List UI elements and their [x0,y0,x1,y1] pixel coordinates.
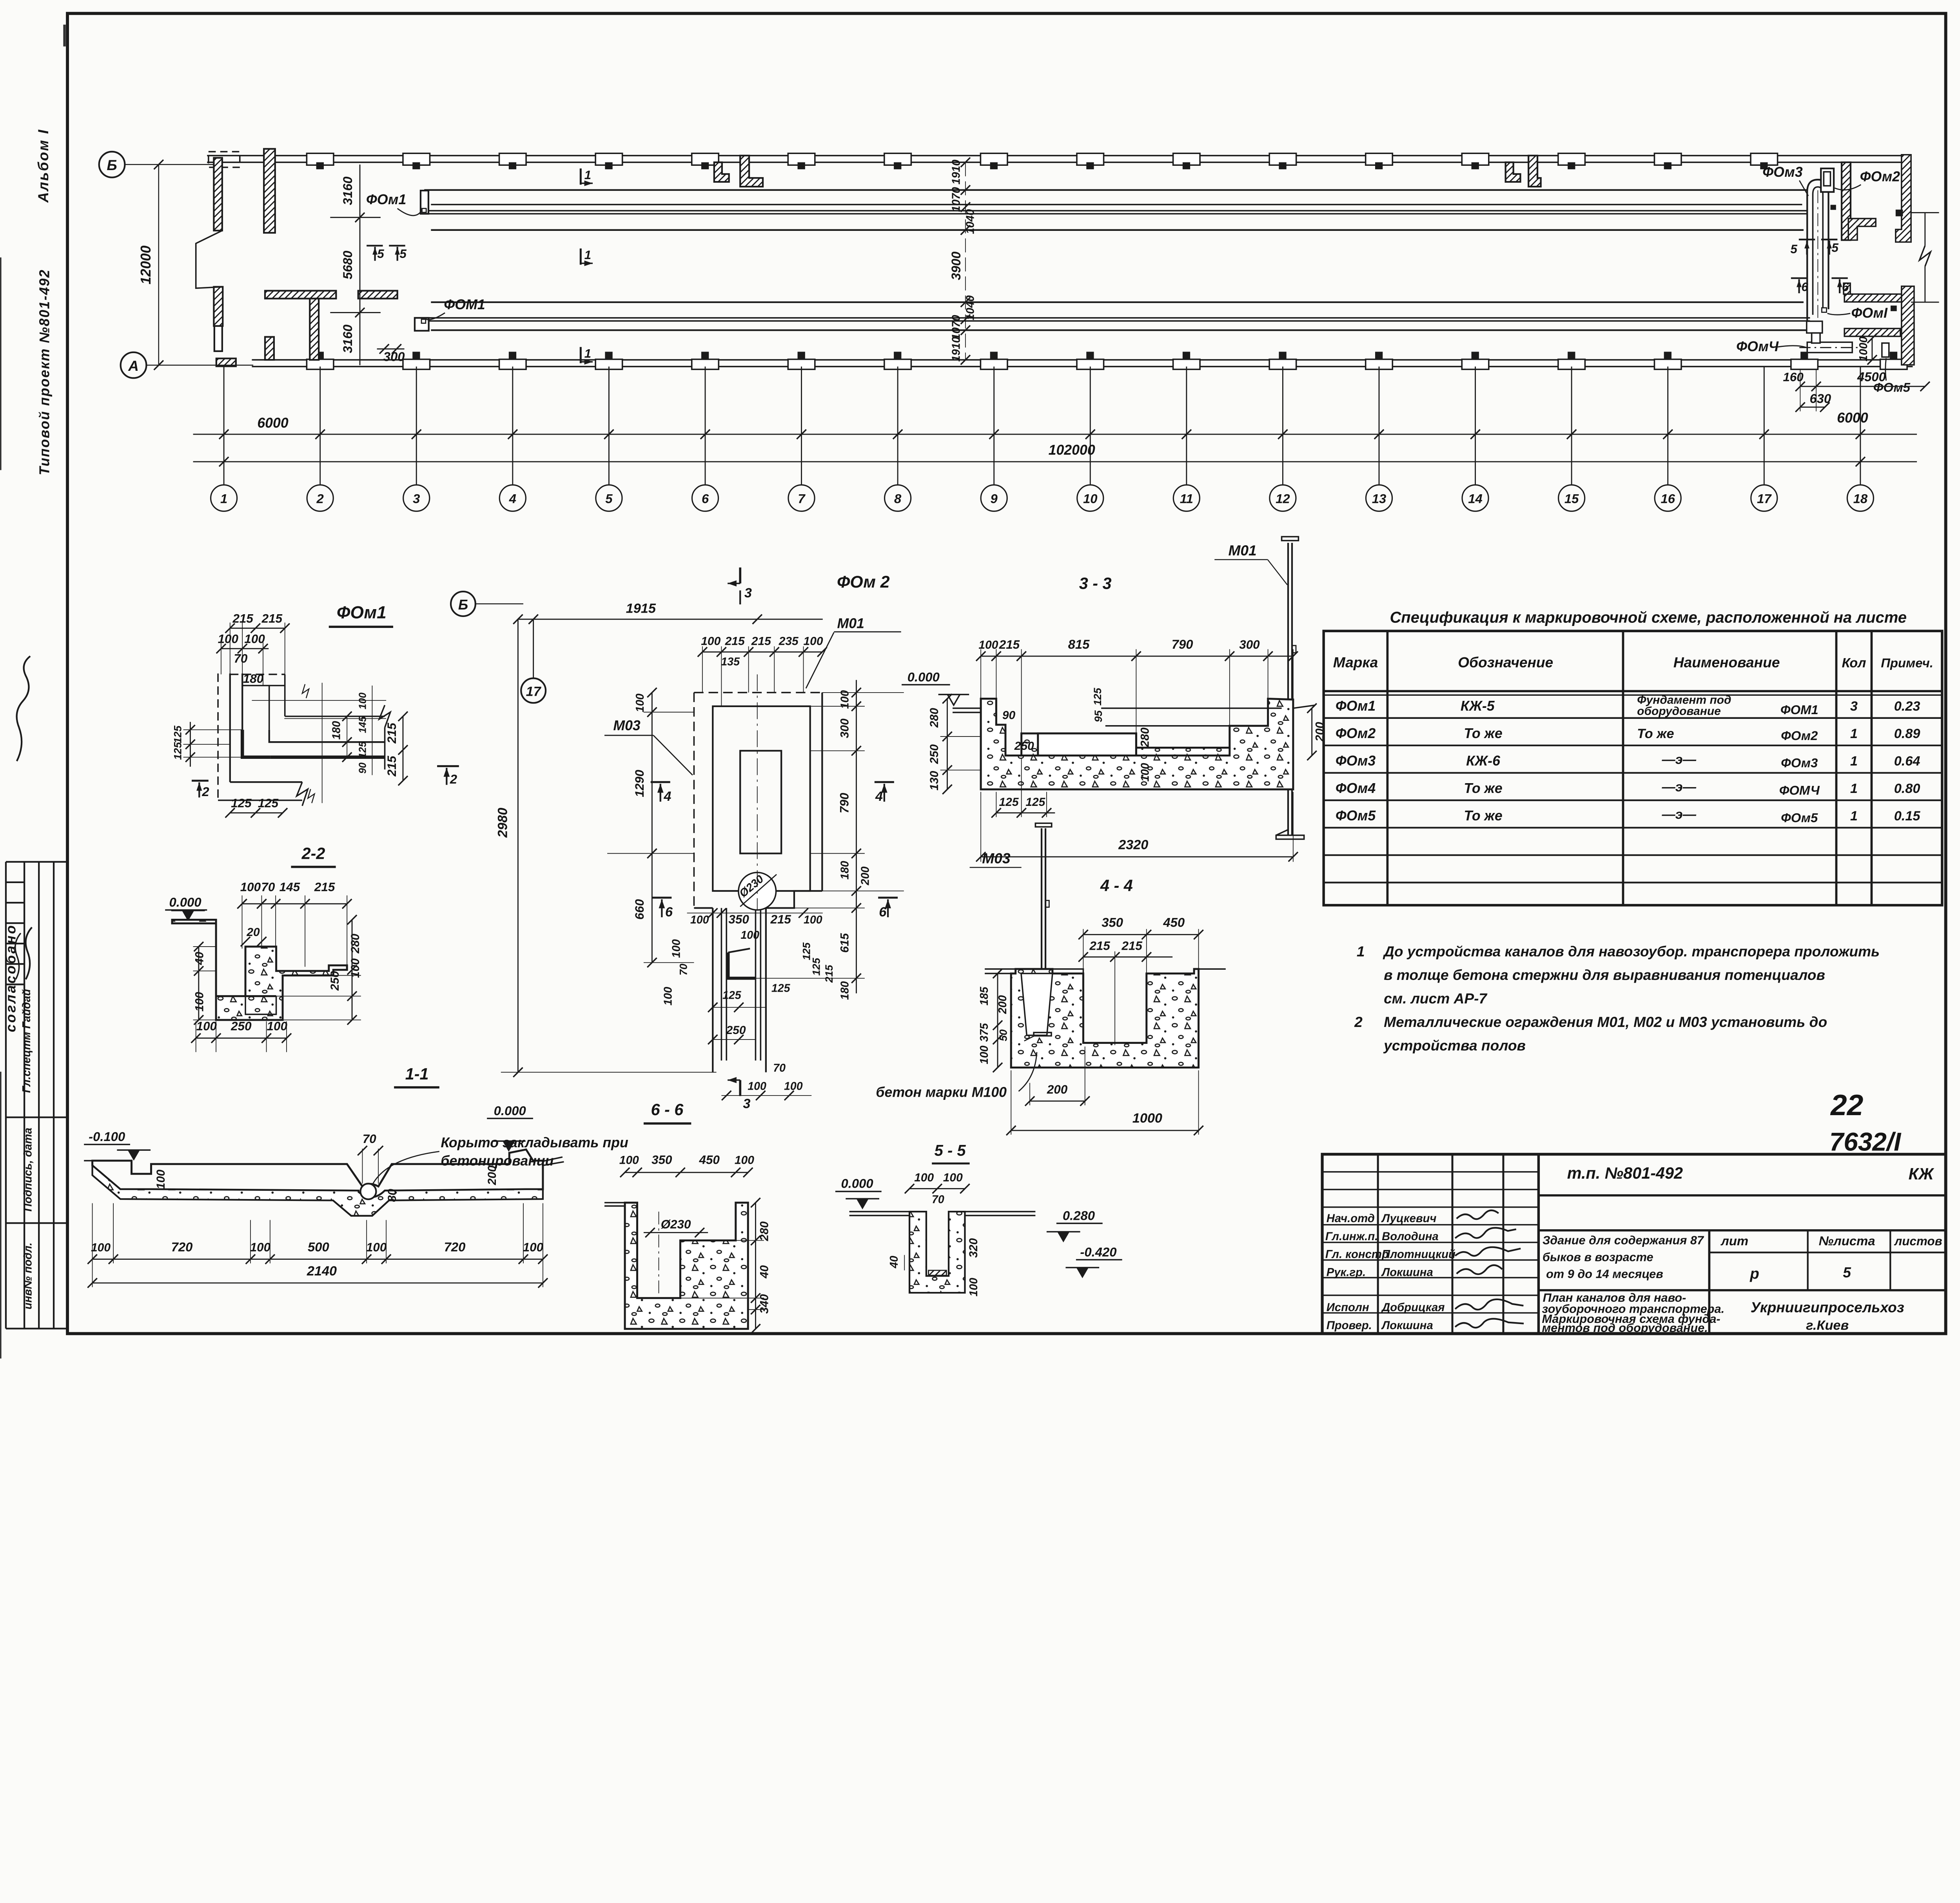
svg-text:1915: 1915 [626,601,656,616]
svg-text:70: 70 [234,651,247,665]
svg-text:3160: 3160 [340,176,355,205]
svg-text:1: 1 [220,492,227,506]
svg-text:215: 215 [1121,939,1142,953]
svg-text:6: 6 [702,492,709,506]
FOm2 mid dims [687,912,823,914]
dim 300 [377,348,405,350]
3-3 top dims [981,655,1293,657]
svg-text:То же: То же [1637,726,1674,741]
svg-text:6 - 6: 6 - 6 [651,1101,684,1119]
mid expansion joint details on top wall [714,162,729,182]
svg-text:12000: 12000 [138,245,154,284]
svg-text:280: 280 [758,1221,771,1241]
trough slab hatch lines [84,1160,92,1162]
svg-text:Марка: Марка [1333,654,1378,671]
svg-text:1: 1 [584,346,591,360]
svg-text:70: 70 [773,1062,786,1074]
svg-text:0.23: 0.23 [1894,699,1920,714]
svg-text:0.000: 0.000 [169,895,201,909]
svg-text:Гл. констр: Гл. констр [1325,1248,1389,1261]
svg-text:А: А [128,357,139,374]
svg-text:5: 5 [1843,1264,1851,1281]
svg-text:100: 100 [943,1171,963,1184]
svg-text:660: 660 [633,899,646,920]
svg-text:Гл.спецтм Гайдай: Гл.спецтм Гайдай [20,989,33,1093]
svg-text:11: 11 [1180,492,1193,506]
FOm2 left dim chain [651,693,653,963]
svg-text:6: 6 [1842,280,1849,294]
svg-text:125: 125 [172,742,184,760]
svg-text:40: 40 [888,1256,900,1269]
top wall [207,156,1908,162]
svg-text:Здание для содержания 87: Здание для содержания 87 [1543,1234,1704,1247]
svg-text:Плотницкий: Плотницкий [1382,1248,1455,1261]
svg-text:500: 500 [308,1239,329,1254]
2-2 dims top [242,903,347,905]
svg-text:1070: 1070 [950,315,963,340]
svg-text:180: 180 [838,981,851,1000]
svg-text:4: 4 [509,492,516,506]
svg-text:Исполн: Исполн [1327,1301,1369,1314]
svg-text:3 - 3: 3 - 3 [1079,575,1112,593]
svg-text:ФОм1: ФОм1 [366,192,406,207]
svg-text:Нач.отд: Нач.отд [1327,1212,1375,1225]
FOm1 dims top [230,628,285,629]
svg-text:4: 4 [875,789,883,804]
svg-text:ФОм2: ФОм2 [1781,728,1818,743]
svg-text:КЖ-6: КЖ-6 [1466,753,1501,769]
6-6 right dims [755,1203,756,1329]
svg-text:г.Киев: г.Киев [1806,1318,1849,1333]
svg-text:ФОм 2: ФОм 2 [837,573,890,591]
svg-text:100: 100 [748,1080,766,1093]
3-3 right dim 200 [1311,708,1313,756]
svg-text:215: 215 [314,880,335,894]
M01 post [1287,543,1289,835]
dim 1000 rotated right [1871,338,1873,360]
svg-text:9: 9 [991,492,998,506]
svg-text:2: 2 [316,492,324,506]
svg-text:50: 50 [997,1029,1009,1041]
svg-text:3: 3 [744,586,752,600]
svg-text:450: 450 [1163,915,1185,929]
svg-text:5: 5 [1790,242,1797,256]
svg-text:100: 100 [978,639,998,651]
svg-text:Луцкевич: Луцкевич [1381,1212,1436,1225]
svg-text:2140: 2140 [307,1264,337,1279]
svg-text:100: 100 [619,1154,639,1167]
svg-text:То же: То же [1464,808,1502,824]
svg-text:Локшина: Локшина [1381,1266,1433,1279]
svg-text:Укрниигипросельхоз: Укрниигипросельхоз [1751,1299,1904,1315]
svg-text:200: 200 [996,995,1009,1014]
svg-text:ментов под оборудование.: ментов под оборудование. [1542,1321,1708,1335]
svg-text:КЖ: КЖ [1909,1165,1935,1183]
svg-text:100: 100 [967,1278,980,1297]
3-3 left dims [946,699,948,789]
left gable wall fragments [209,152,240,167]
svg-text:Спецификация к маркировочной с: Спецификация к маркировочной схеме, расп… [1390,609,1907,626]
svg-text:720: 720 [171,1239,193,1254]
svg-text:Б: Б [107,157,117,173]
section 2 marks [192,779,209,782]
svg-text:от 9 до 14 месяцев: от 9 до 14 месяцев [1546,1267,1663,1281]
svg-text:1000: 1000 [1857,336,1870,361]
svg-text:КЖ-5: КЖ-5 [1461,698,1495,714]
5-5 top dims [909,1188,965,1190]
svg-text:ФОМ1: ФОМ1 [1780,702,1818,717]
svg-text:215: 215 [751,635,771,648]
svg-text:7: 7 [798,492,806,506]
interior wall T pieces left [265,291,336,299]
margin stamp table [6,862,67,1329]
svg-text:215: 215 [232,611,253,625]
svg-text:5 - 5: 5 - 5 [935,1142,966,1159]
svg-text:125: 125 [172,725,184,743]
FOm2 right dim chain [855,680,857,994]
svg-text:215: 215 [261,611,283,625]
svg-text:6000: 6000 [1837,410,1868,426]
svg-text:15: 15 [1564,492,1579,506]
svg-text:300: 300 [1239,638,1260,651]
svg-text:100: 100 [740,929,759,942]
axis A circle [121,352,147,378]
section 3 mark top [739,568,742,584]
svg-text:80: 80 [386,1189,399,1202]
svg-text:2-2: 2-2 [301,845,325,863]
svg-text:1910: 1910 [950,160,963,185]
svg-text:лит: лит [1720,1234,1748,1248]
svg-text:До устройства каналов для наво: До устройства каналов для навозоубор. тр… [1383,943,1880,960]
svg-text:М01: М01 [837,616,864,631]
svg-text:см. лист АР-7: см. лист АР-7 [1384,990,1488,1007]
svg-text:7632/I: 7632/I [1829,1127,1902,1156]
svg-text:Кол: Кол [1842,656,1866,671]
svg-text:160: 160 [1783,370,1804,384]
svg-text:40: 40 [193,952,206,965]
svg-text:70: 70 [261,880,275,894]
svg-text:1: 1 [1850,809,1858,824]
axis B circle [99,152,125,178]
svg-text:215: 215 [823,965,835,983]
svg-text:375: 375 [978,1023,991,1042]
grid circles [211,485,1874,511]
svg-text:1: 1 [1357,943,1365,960]
svg-text:100: 100 [154,1170,167,1189]
svg-text:125: 125 [771,982,791,995]
svg-text:5: 5 [399,247,407,261]
svg-text:Гл.инж.п.: Гл.инж.п. [1325,1230,1378,1243]
dim line 6000 row [193,434,1917,435]
svg-text:6: 6 [665,905,673,920]
svg-text:оборудование: оборудование [1637,705,1721,718]
svg-text:250: 250 [1014,740,1034,753]
svg-text:100: 100 [267,1019,288,1033]
svg-text:125: 125 [258,796,279,810]
svg-text:1070: 1070 [950,187,963,212]
svg-text:100: 100 [978,1045,991,1064]
svg-text:4500: 4500 [1857,369,1886,384]
FOm2 center dashdot [757,674,758,909]
svg-text:5: 5 [377,247,384,261]
svg-text:22: 22 [1830,1088,1863,1121]
svg-text:125: 125 [1091,688,1103,706]
4-4 top dims [1083,934,1198,935]
svg-text:280: 280 [349,934,362,954]
svg-text:100: 100 [358,692,368,709]
svg-text:250: 250 [328,971,341,991]
svg-text:устройства полов: устройства полов [1383,1037,1526,1054]
svg-text:—э—: —э— [1662,752,1697,767]
dim chain 3160/5680/3160 [359,165,361,365]
svg-text:185: 185 [978,986,991,1005]
svg-text:20: 20 [246,926,260,939]
svg-text:1: 1 [584,248,591,262]
FOm2 block top right [1821,169,1834,192]
section 3 mark bottom [739,1080,742,1096]
svg-text:Володина: Володина [1382,1230,1439,1243]
svg-text:90: 90 [358,762,368,774]
channel left end cap FOm1 [421,190,428,214]
svg-text:16: 16 [1661,492,1675,506]
svg-text:615: 615 [838,932,851,952]
5-5 body [909,1212,965,1293]
dim 12000 vertical [158,165,160,365]
svg-text:6000: 6000 [257,415,289,431]
svg-text:790: 790 [837,793,851,813]
FOm1 dims right [347,717,348,757]
svg-text:—э—: —э— [1662,780,1697,795]
lower right room walls [1844,294,1902,302]
svg-text:1: 1 [1850,726,1858,741]
svg-text:95: 95 [1092,710,1104,722]
svg-text:0.64: 0.64 [1894,754,1920,769]
svg-text:1040: 1040 [964,209,976,234]
svg-text:135: 135 [721,656,740,668]
svg-text:бетон марки М100: бетон марки М100 [876,1084,1007,1100]
right end walls [1842,162,1851,240]
svg-text:100: 100 [662,987,674,1005]
svg-text:100: 100 [914,1171,934,1184]
svg-text:ФОмI: ФОмI [1851,305,1888,321]
svg-text:0.000: 0.000 [841,1176,873,1190]
top wall pilasters [307,153,334,169]
second expansion joint details on top wall [1506,162,1521,182]
svg-text:100: 100 [244,632,265,646]
svg-text:17: 17 [526,684,542,699]
dim 2140 [93,1282,543,1284]
svg-text:215: 215 [999,638,1020,651]
channel long lines bottom band [420,302,1810,330]
svg-text:1040: 1040 [964,295,976,320]
svg-text:3: 3 [743,1096,750,1111]
svg-text:0.000: 0.000 [907,669,940,684]
svg-text:125: 125 [231,796,252,810]
3-3 right floor lines [1101,707,1281,709]
scan edge artifacts [0,258,2,470]
svg-text:450: 450 [699,1153,720,1167]
svg-text:250: 250 [230,1019,252,1033]
svg-text:145: 145 [279,880,300,894]
dims 160 4500 630 [1800,386,1925,387]
svg-text:100: 100 [523,1240,544,1254]
channel long lines top band [424,190,1807,230]
svg-text:215: 215 [770,912,791,926]
svg-text:100: 100 [196,1019,217,1033]
section marks 5 left [367,246,405,261]
margin signature squiggle mid [26,927,32,980]
svg-text:р: р [1749,1265,1759,1282]
svg-text:70: 70 [363,1132,376,1146]
svg-text:5: 5 [605,492,613,506]
svg-text:13: 13 [1372,492,1387,506]
svg-text:180: 180 [330,721,343,740]
svg-text:4 - 4: 4 - 4 [1100,877,1133,895]
svg-text:быков в возрасте: быков в возрасте [1543,1250,1653,1264]
3-3 body [981,699,1293,789]
svg-text:100: 100 [240,880,261,894]
svg-text:300: 300 [383,349,405,364]
svg-text:100: 100 [634,693,646,712]
svg-text:0.89: 0.89 [1894,726,1920,741]
svg-text:70: 70 [932,1194,944,1206]
svg-text:10: 10 [1083,492,1098,506]
svg-text:215: 215 [385,723,399,744]
FOm5 block [1882,343,1889,357]
svg-text:300: 300 [838,718,851,738]
margin signature squiggle upper [17,656,31,761]
svg-text:250: 250 [928,744,941,764]
svg-text:Примеч.: Примеч. [1881,656,1933,670]
svg-text:215: 215 [385,756,399,777]
spec table grid [1324,631,1942,905]
6-6 top dims [625,1172,748,1173]
M03 post above 4-4 [1040,828,1043,996]
FOm4 strip [1807,342,1852,352]
svg-text:720: 720 [444,1239,466,1254]
svg-text:100: 100 [366,1240,387,1254]
section marks 1 (three flags) [581,169,593,363]
svg-text:3160: 3160 [340,325,355,353]
svg-text:100: 100 [735,1154,754,1167]
channel left end cap lower FOm1 [415,318,429,331]
vertical dim chain mid-plan [965,162,966,360]
svg-text:Подпись, дата: Подпись, дата [22,1128,34,1212]
axis circle 17 [521,678,546,703]
section 2-2 body [172,920,347,1020]
svg-text:1000: 1000 [1132,1111,1162,1126]
svg-text:ФОмЧ: ФОмЧ [1736,339,1779,354]
svg-text:инв№ подл.: инв№ подл. [22,1243,34,1310]
svg-text:280: 280 [1138,727,1151,747]
svg-text:2: 2 [201,784,209,799]
signatures squiggles [1455,1210,1524,1328]
4-4 left dims [1007,974,1008,1068]
FOm1 channel corner walls [218,673,390,806]
bottom wall [252,360,1913,366]
svg-text:-0.100: -0.100 [89,1129,125,1144]
svg-text:ФОм5: ФОм5 [1336,808,1376,824]
svg-text:100: 100 [1139,763,1151,782]
svg-text:М03: М03 [613,718,641,733]
svg-text:125: 125 [800,942,813,960]
svg-text:1: 1 [1850,754,1858,769]
post pocket trapezoid [1021,974,1053,1036]
svg-text:2980: 2980 [495,808,510,838]
svg-text:100: 100 [193,992,206,1011]
svg-text:6: 6 [879,905,887,920]
svg-text:т.п. №801-492: т.п. №801-492 [1567,1164,1683,1182]
section 6 arrows [652,896,671,899]
svg-text:6: 6 [1801,280,1808,294]
FOm3 loop channel right [1807,180,1828,321]
svg-text:125: 125 [358,741,368,758]
4-4 left floor line [985,972,1011,974]
svg-text:3900: 3900 [949,252,963,280]
svg-text:130: 130 [928,771,941,790]
2-2 dims bottom [196,1037,287,1039]
svg-text:3: 3 [1850,699,1858,714]
svg-text:125: 125 [999,796,1019,809]
svg-text:ФОМ1: ФОМ1 [444,297,485,312]
svg-text:200: 200 [859,867,872,886]
svg-text:ФОм2: ФОм2 [1336,726,1376,741]
4-4 bottom dims [1030,1100,1085,1102]
svg-text:ФОм5: ФОм5 [1781,810,1818,825]
svg-text:235: 235 [779,635,799,648]
FOm1 extra extension lines [252,700,386,701]
FOm2 circle D230 [739,873,776,910]
svg-text:ФОм1: ФОм1 [1336,698,1376,714]
grid column stems [224,366,1860,485]
svg-text:Металлические ограждения М01,: Металлические ограждения М01, М02 и М03 … [1384,1014,1827,1030]
svg-text:180: 180 [838,861,851,880]
svg-text:1: 1 [1850,781,1858,796]
svg-text:100: 100 [91,1241,111,1254]
svg-text:1: 1 [584,168,591,182]
dim line 102000 [193,461,1917,463]
svg-text:320: 320 [967,1238,980,1258]
svg-text:Провер.: Провер. [1327,1319,1372,1332]
5-5 floor lines [849,1211,909,1213]
svg-text:100: 100 [804,914,822,926]
svg-text:М01: М01 [1229,542,1257,559]
svg-text:ФОм1: ФОм1 [337,603,387,622]
svg-text:350: 350 [728,912,749,926]
svg-text:790: 790 [1172,637,1193,651]
svg-text:14: 14 [1468,492,1483,506]
section marks 5 right [1799,239,1838,255]
svg-text:350: 350 [652,1153,672,1167]
svg-text:Б: Б [458,597,468,613]
svg-text:102000: 102000 [1049,442,1095,458]
svg-text:—э—: —э— [1662,807,1697,822]
FOm2 plan outline [694,693,822,1072]
trough section body [93,1150,543,1197]
svg-text:1-1: 1-1 [405,1065,429,1083]
svg-text:90: 90 [1002,709,1016,722]
svg-text:Рук.гр.: Рук.гр. [1327,1266,1366,1279]
svg-text:Типовой проект №801-492: Типовой проект №801-492 [37,269,53,475]
svg-text:1910: 1910 [950,337,963,362]
svg-text:350: 350 [1102,915,1123,929]
svg-text:40: 40 [758,1265,771,1279]
svg-text:100: 100 [670,939,683,958]
svg-text:ФОм2: ФОм2 [1860,169,1900,185]
svg-text:125: 125 [1025,796,1045,809]
svg-text:Добрицкая: Добрицкая [1381,1301,1445,1314]
FOm1 dims left [183,729,243,731]
